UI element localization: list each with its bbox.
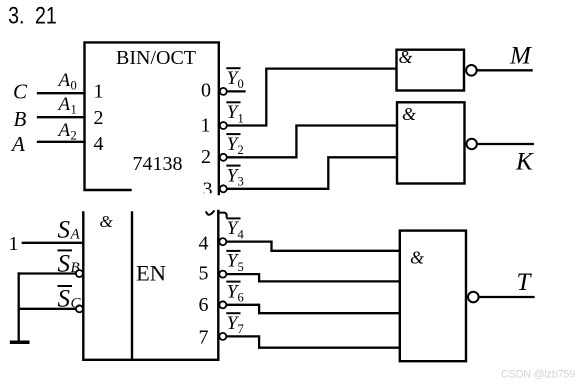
svg-text:4: 4 (199, 233, 209, 255)
enable block EN outline (open top) (83, 211, 218, 360)
wire output Y4 to gate G4 (227, 242, 400, 251)
gate U2 NAND (M) (397, 50, 465, 91)
svg-text:2: 2 (94, 107, 104, 129)
svg-text:7: 7 (199, 327, 209, 349)
gate U4 output bubble (468, 292, 479, 303)
svg-text:3: 3 (238, 175, 244, 189)
wire output Y5 to gate G4 (227, 274, 400, 281)
svg-text:1: 1 (201, 115, 211, 137)
gate U2 output bubble (466, 65, 477, 76)
overbar SB (59, 249, 72, 251)
wire Y2 to gate G2 (228, 126, 398, 158)
wire input A (38, 141, 85, 143)
wire input B (38, 116, 85, 118)
input bubble SB (76, 270, 83, 277)
output bubble Y4 (219, 238, 226, 245)
svg-text:A: A (57, 120, 71, 141)
svg-text:0: 0 (201, 80, 211, 102)
svg-text:&: & (410, 248, 424, 268)
decoder U1 74138 outline (open bottom-right) (85, 42, 219, 194)
svg-text:7: 7 (238, 322, 244, 336)
svg-text:S: S (58, 250, 71, 277)
output bubble Y1 (220, 122, 227, 129)
svg-text:C: C (13, 80, 28, 104)
overbar Y2 (227, 133, 239, 135)
overbar Y0 (227, 67, 239, 69)
svg-text:6: 6 (199, 294, 209, 316)
svg-text:B: B (14, 107, 27, 131)
svg-text:B: B (71, 260, 80, 276)
svg-text:1: 1 (71, 103, 77, 117)
gate U4 NAND (T) (400, 231, 466, 362)
stitch artifact partial digit (206, 211, 214, 214)
wire Y1 to gate G1 (228, 69, 397, 126)
svg-text:74138: 74138 (133, 153, 183, 175)
pin number 3 out (203, 179, 213, 201)
input bubble SC (76, 305, 83, 312)
wire Y3 to gate G2 (228, 157, 398, 189)
overbar Y5 (227, 250, 239, 252)
wire output Y6 to gate G4 (227, 305, 400, 313)
svg-text:0: 0 (71, 79, 77, 93)
svg-text:&: & (402, 104, 416, 124)
svg-text:S: S (58, 286, 71, 313)
gate U3 NAND (K) (397, 102, 465, 183)
svg-text:5: 5 (199, 263, 209, 285)
svg-text:M: M (509, 43, 532, 70)
svg-text:0: 0 (238, 77, 244, 91)
overbar Y3 (227, 165, 239, 167)
wire output Y7 to gate G4 (227, 336, 400, 347)
overbar SC (59, 285, 72, 287)
output bubble Y0 (220, 88, 227, 95)
svg-text:BIN/OCT: BIN/OCT (116, 47, 196, 69)
svg-text:2: 2 (238, 143, 244, 157)
svg-text:K: K (515, 149, 534, 176)
wire input SA (23, 242, 84, 244)
ground (12, 341, 28, 345)
enable block divider (131, 213, 133, 360)
svg-text:A: A (57, 70, 71, 91)
output bubble Y6 (219, 301, 226, 308)
overbar Y4 (227, 217, 239, 219)
svg-text:2: 2 (201, 146, 211, 168)
wire input SC (19, 308, 76, 310)
wire output K (477, 143, 533, 145)
stitch artifact partial bubble (218, 213, 226, 217)
wire output T (479, 296, 534, 298)
svg-text:2: 2 (71, 129, 77, 143)
svg-text:3: 3 (203, 179, 213, 201)
output bubble Y2 (220, 154, 227, 161)
svg-text:1: 1 (94, 81, 104, 103)
output bubble Y3 (220, 185, 227, 192)
wire output M (477, 69, 532, 71)
svg-text:EN: EN (136, 261, 166, 286)
svg-text:&: & (100, 212, 114, 231)
svg-text:S: S (58, 217, 71, 244)
svg-text:C: C (71, 296, 82, 312)
overbar Y6 (227, 281, 239, 283)
svg-text:4: 4 (238, 227, 245, 241)
svg-text:5: 5 (238, 260, 244, 274)
svg-text:A: A (70, 227, 81, 243)
svg-text:A: A (57, 94, 71, 115)
wire input SB (19, 272, 76, 274)
overbar Y7 (227, 312, 239, 314)
svg-text:1: 1 (9, 233, 19, 255)
wire SB-SC junction to ground (18, 274, 20, 342)
svg-text:T: T (517, 269, 533, 296)
svg-text:&: & (399, 47, 413, 67)
svg-text:3.: 3. (8, 1, 24, 29)
svg-text:A: A (10, 132, 25, 156)
svg-text:21: 21 (35, 1, 57, 29)
gate U3 output bubble (467, 139, 477, 149)
output bubble Y7 (219, 333, 226, 340)
wire output Y0 stub (227, 90, 245, 92)
svg-text:CSDN @lzb759: CSDN @lzb759 (501, 369, 575, 381)
svg-text:6: 6 (238, 291, 244, 305)
wire input C (38, 92, 85, 94)
overbar Y1 (227, 101, 239, 103)
output bubble Y5 (219, 271, 226, 278)
svg-text:1: 1 (238, 111, 244, 125)
svg-text:4: 4 (94, 133, 104, 155)
